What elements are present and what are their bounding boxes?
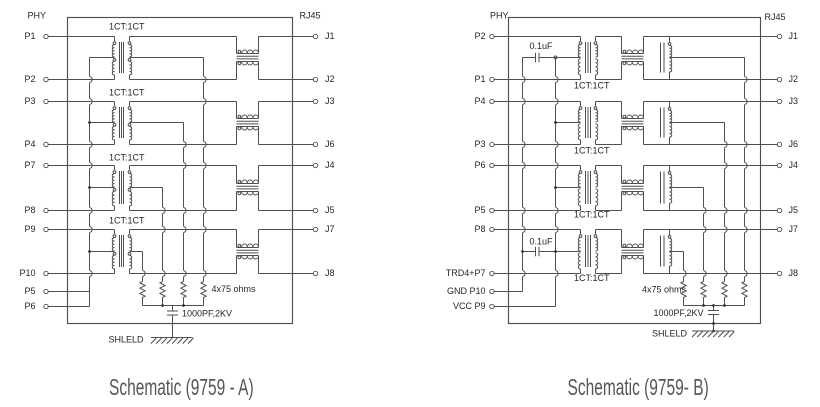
wire T1 (A) secondary center tap to termination column	[130, 57, 204, 59]
capacitor C4 (B) 1000PF,2KV	[654, 306, 720, 332]
svg-text:P4: P4	[474, 96, 485, 106]
pin VCC P9 (B) terminal, wire and label	[453, 301, 556, 311]
schematic A outline box	[68, 18, 293, 324]
junction C3/T4 CT on bus (B)	[554, 250, 557, 253]
junction shield stem to ground (B)	[712, 330, 715, 333]
pin P9 (A) terminal, wire and label	[24, 224, 114, 234]
termination column for L1 (B) with crossover hops	[745, 58, 748, 282]
pin GND P10 (B) terminal, wire and label	[447, 286, 523, 296]
pin J8 (A) terminal, wire and label	[259, 268, 335, 278]
caption Schematic (9759-A)	[109, 375, 254, 401]
svg-text:J4: J4	[789, 160, 799, 170]
svg-text:J3: J3	[789, 96, 799, 106]
wire T1 (A) secondary bottom to CM1	[130, 79, 237, 81]
svg-text:J2: J2	[325, 74, 335, 84]
resistor R4 (A) 75 ohm	[201, 282, 206, 306]
wire T3 (B) secondary bottom to CM3	[596, 210, 622, 212]
pin J8 (B) terminal, wire and label	[644, 268, 799, 278]
wire T1 (A) secondary top to CM1	[130, 36, 237, 38]
transformer T4 (A) 1CT:1CT	[109, 216, 145, 274]
svg-text:PHY: PHY	[490, 10, 509, 20]
svg-text:4x75 ohms: 4x75 ohms	[642, 285, 687, 295]
svg-text:1CT:1CT: 1CT:1CT	[109, 88, 145, 98]
svg-text:J4: J4	[325, 160, 335, 170]
svg-text:Schematic (9759 - A): Schematic (9759 - A)	[109, 375, 254, 401]
ring junction C2 output (B)	[554, 56, 557, 59]
svg-text:P8: P8	[474, 224, 485, 234]
autotransformer choke L3 (B)	[661, 166, 672, 211]
wire T4 (A) primary center tap to bus	[90, 251, 115, 253]
junction T3 CT on bus (A)	[88, 186, 91, 189]
wire T2 (A) primary center tap to bus	[90, 122, 115, 124]
svg-text:J3: J3	[325, 96, 335, 106]
common-mode choke CM1 (B)	[622, 37, 644, 80]
transformer T3 (B) 1CT:1CT	[574, 166, 610, 220]
svg-text:Schematic (9759- B): Schematic (9759- B)	[568, 375, 709, 401]
junction T4 CT on bus (A)	[88, 250, 91, 253]
pin P5 (B) terminal, wire and label	[474, 205, 580, 215]
junction cap stem to bus (B)	[712, 304, 715, 307]
pin P6 (A) terminal, wire and label	[24, 301, 89, 311]
pin P4 (A) terminal, wire and label	[24, 139, 114, 149]
transformer T1 (B) 1CT:1CT	[574, 37, 610, 91]
svg-text:J7: J7	[325, 224, 335, 234]
transformer T3 (A) 1CT:1CT	[109, 153, 145, 211]
termination column for T3 (A) with crossover hops	[163, 188, 166, 282]
svg-text:P4: P4	[24, 139, 35, 149]
pin P1 (B) terminal, wire and label	[474, 74, 580, 84]
resistor R5 (B) 75 ohm	[681, 282, 686, 306]
svg-text:J5: J5	[789, 205, 799, 215]
svg-text:RJ45: RJ45	[765, 12, 786, 22]
label RJ45 (A)	[300, 11, 321, 21]
pin J2 (A) terminal, wire and label	[259, 74, 335, 84]
pin J5 (A) terminal, wire and label	[259, 205, 335, 215]
pin J4 (B) terminal, wire and label	[644, 160, 799, 170]
resistor R7 (B) 75 ohm	[722, 282, 727, 306]
pin TRD4+P7 (B) terminal, wire and label	[446, 268, 581, 278]
chassis ground SHLELD (B)	[652, 329, 734, 339]
svg-text:P2: P2	[474, 31, 485, 41]
wire T3 (B) secondary top to CM3	[596, 165, 622, 167]
svg-text:J7: J7	[789, 224, 799, 234]
svg-text:1CT:1CT: 1CT:1CT	[574, 273, 610, 283]
svg-text:1CT:1CT: 1CT:1CT	[109, 216, 145, 226]
junction R3 to bus (A)	[182, 304, 185, 307]
wire T3 (A) secondary center tap to termination column	[130, 187, 163, 189]
termination column for T1 (A) with crossover hops	[204, 58, 207, 282]
chassis ground SHLELD (A)	[109, 335, 194, 345]
pin J1 (B) terminal, wire and label	[644, 31, 799, 41]
svg-text:P7: P7	[24, 160, 35, 170]
svg-text:J8: J8	[325, 268, 335, 278]
wire T2 (A) secondary top to CM2	[130, 101, 237, 103]
svg-text:P5: P5	[24, 286, 35, 296]
junction T2 CT on bus (B)	[554, 121, 557, 124]
transformer T4 (B) 1CT:1CT	[574, 230, 610, 284]
svg-text:J8: J8	[789, 268, 799, 278]
pin P10 (A) terminal, wire and label	[19, 268, 114, 278]
common-mode choke CM1 (A)	[237, 37, 259, 80]
svg-text:P3: P3	[24, 96, 35, 106]
svg-text:0.1uF: 0.1uF	[530, 237, 554, 247]
junction C3 left on GND bus (B)	[521, 250, 524, 253]
pin P1 (A) terminal, wire and label	[24, 31, 114, 41]
wire choke L2 (B) tap to termination column	[670, 122, 725, 124]
svg-text:J1: J1	[325, 31, 335, 41]
pin P2 (B) terminal, wire and label	[474, 31, 580, 41]
wire choke L1 (B) tap to termination column	[670, 57, 745, 59]
capacitor C3 (B) 0.1uF	[523, 237, 581, 257]
wire T2 (B) secondary top to CM2	[596, 101, 622, 103]
svg-text:SHLELD: SHLELD	[652, 329, 688, 339]
svg-text:SHLELD: SHLELD	[109, 335, 145, 345]
common-mode choke CM4 (A)	[237, 230, 259, 274]
transformer T1 (A) 1CT:1CT	[109, 22, 145, 80]
pin J1 (A) terminal, wire and label	[259, 31, 335, 41]
common-mode choke CM3 (B)	[622, 166, 644, 211]
svg-text:P1: P1	[474, 74, 485, 84]
svg-text:P10: P10	[19, 268, 35, 278]
wire T2 (B) secondary bottom to CM2	[596, 144, 622, 146]
wire choke L4 (B) tap to termination column	[670, 251, 684, 253]
wire T2 (A) secondary bottom to CM2	[130, 144, 237, 146]
junction T2 CT on bus (A)	[88, 121, 91, 124]
pin P2 (A) terminal, wire and label	[24, 74, 114, 84]
capacitor C1 (A) 1000PF,2KV	[167, 306, 232, 338]
label RJ45 (B)	[765, 12, 786, 22]
svg-text:P1: P1	[24, 31, 35, 41]
resistor R1 (A) 75 ohm	[140, 282, 145, 306]
wire T3 (A) secondary bottom to CM3	[130, 210, 237, 212]
svg-text:P5: P5	[474, 205, 485, 215]
svg-text:J6: J6	[789, 139, 799, 149]
pin P3 (A) terminal, wire and label	[24, 96, 114, 106]
pin J5 (B) terminal, wire and label	[644, 205, 799, 215]
common-mode choke CM2 (B)	[622, 102, 644, 145]
termination column for T2 (A) with crossover hops	[184, 123, 187, 282]
svg-text:VCC P9: VCC P9	[453, 301, 486, 311]
wire T2 (B) primary center tap to bus	[556, 122, 581, 124]
svg-text:P6: P6	[474, 160, 485, 170]
svg-text:PHY: PHY	[28, 10, 47, 20]
pin J6 (B) terminal, wire and label	[644, 139, 799, 149]
pin J4 (A) terminal, wire and label	[259, 160, 335, 170]
svg-text:GND P10: GND P10	[447, 286, 486, 296]
autotransformer choke L1 (B)	[661, 37, 672, 80]
wire T4 (A) secondary center tap to termination column	[130, 251, 143, 253]
pin P8 (A) terminal, wire and label	[24, 205, 114, 215]
wire T4 (A) secondary bottom to CM4	[130, 273, 237, 275]
pin J6 (A) terminal, wire and label	[259, 139, 335, 149]
svg-text:P8: P8	[24, 205, 35, 215]
wire T3 (A) primary center tap to bus	[90, 187, 115, 189]
svg-text:J2: J2	[789, 74, 799, 84]
capacitor C2 (B) 0.1uF	[523, 41, 581, 62]
resistor R8 (B) 75 ohm	[742, 282, 747, 306]
svg-text:1CT:1CT: 1CT:1CT	[574, 81, 610, 91]
label PHY (A)	[28, 10, 47, 20]
junction shield stem to outline (B)	[712, 322, 715, 325]
svg-text:4x75 ohms: 4x75 ohms	[212, 284, 257, 294]
label 4x75 ohms (B)	[642, 285, 687, 295]
svg-text:P9: P9	[24, 224, 35, 234]
termination column for T4 (A) with crossover hops	[143, 252, 146, 282]
label 4x75 ohms (A)	[212, 284, 257, 294]
svg-text:1000PF,2KV: 1000PF,2KV	[182, 309, 232, 319]
pin J7 (A) terminal, wire and label	[259, 224, 335, 234]
svg-text:P3: P3	[474, 139, 485, 149]
svg-text:1CT:1CT: 1CT:1CT	[109, 153, 145, 163]
wire T2 (A) secondary center tap to termination column	[130, 122, 184, 124]
resistor common bus (B)	[684, 305, 745, 307]
svg-text:0.1uF: 0.1uF	[530, 41, 554, 51]
pin J3 (A) terminal, wire and label	[259, 96, 335, 106]
svg-text:1CT:1CT: 1CT:1CT	[109, 22, 145, 32]
GND bus (B) with crossover hops	[523, 58, 526, 292]
svg-text:1CT:1CT: 1CT:1CT	[574, 146, 610, 156]
svg-text:1000PF,2KV: 1000PF,2KV	[654, 308, 704, 318]
wire T1 (B) secondary top to CM1	[596, 36, 622, 38]
pin J3 (B) terminal, wire and label	[644, 96, 799, 106]
resistor R6 (B) 75 ohm	[701, 282, 706, 306]
wire T3 (A) secondary top to CM3	[130, 165, 237, 167]
pin P3 (B) terminal, wire and label	[474, 139, 580, 149]
wire T1 (B) secondary bottom to CM1	[596, 79, 622, 81]
pin P6 (B) terminal, wire and label	[474, 160, 580, 170]
pin P7 (A) terminal, wire and label	[24, 160, 114, 170]
wire T3 (B) primary center tap to bus	[556, 187, 581, 189]
transformer T2 (B) 1CT:1CT	[574, 102, 610, 156]
wire T4 (B) secondary bottom to CM4	[596, 273, 622, 275]
svg-text:J6: J6	[325, 139, 335, 149]
junction R2 to bus (A)	[161, 304, 164, 307]
resistor R3 (A) 75 ohm	[181, 282, 186, 306]
primary center-tap bus (A) with crossover hops	[90, 58, 93, 307]
common-mode choke CM4 (B)	[622, 230, 644, 274]
svg-text:TRD4+P7: TRD4+P7	[446, 268, 486, 278]
pin P5 (A) terminal, wire and label	[24, 286, 89, 296]
common-mode choke CM3 (A)	[237, 166, 259, 211]
transformer T2 (A) 1CT:1CT	[109, 88, 145, 145]
svg-text:RJ45: RJ45	[300, 11, 321, 21]
termination column for L2 (B) with crossover hops	[725, 123, 728, 282]
pin J2 (B) terminal, wire and label	[644, 74, 799, 84]
pin P4 (B) terminal, wire and label	[474, 96, 580, 106]
schematic B outline box	[509, 18, 761, 324]
autotransformer choke L2 (B)	[661, 102, 672, 145]
wire T4 (B) secondary top to CM4	[596, 229, 622, 231]
pin J7 (B) terminal, wire and label	[644, 224, 799, 234]
termination column for L3 (B) with crossover hops	[704, 188, 707, 282]
junction T3 CT on bus (B)	[554, 186, 557, 189]
junction R7 to bus (B)	[723, 304, 726, 307]
junction R6 to bus (B)	[702, 304, 705, 307]
svg-text:P6: P6	[24, 301, 35, 311]
termination column for L4 (B) with crossover hops	[684, 252, 687, 282]
autotransformer choke L4 (B)	[661, 230, 672, 274]
wire choke L3 (B) tap to termination column	[670, 187, 704, 189]
svg-text:J5: J5	[325, 205, 335, 215]
svg-text:P2: P2	[24, 74, 35, 84]
pin P8 (B) terminal, wire and label	[474, 224, 580, 234]
resistor common bus (A)	[143, 305, 204, 307]
center-tap VCC bus (B) with crossover hops	[556, 58, 559, 307]
resistor R2 (A) 75 ohm	[160, 282, 165, 306]
wire T4 (A) secondary top to CM4	[130, 229, 237, 231]
label PHY (B)	[490, 10, 509, 20]
caption Schematic (9759-B)	[568, 375, 709, 401]
common-mode choke CM2 (A)	[237, 102, 259, 145]
svg-text:J1: J1	[789, 31, 799, 41]
wire T1 (A) primary center tap to bus	[90, 57, 115, 59]
